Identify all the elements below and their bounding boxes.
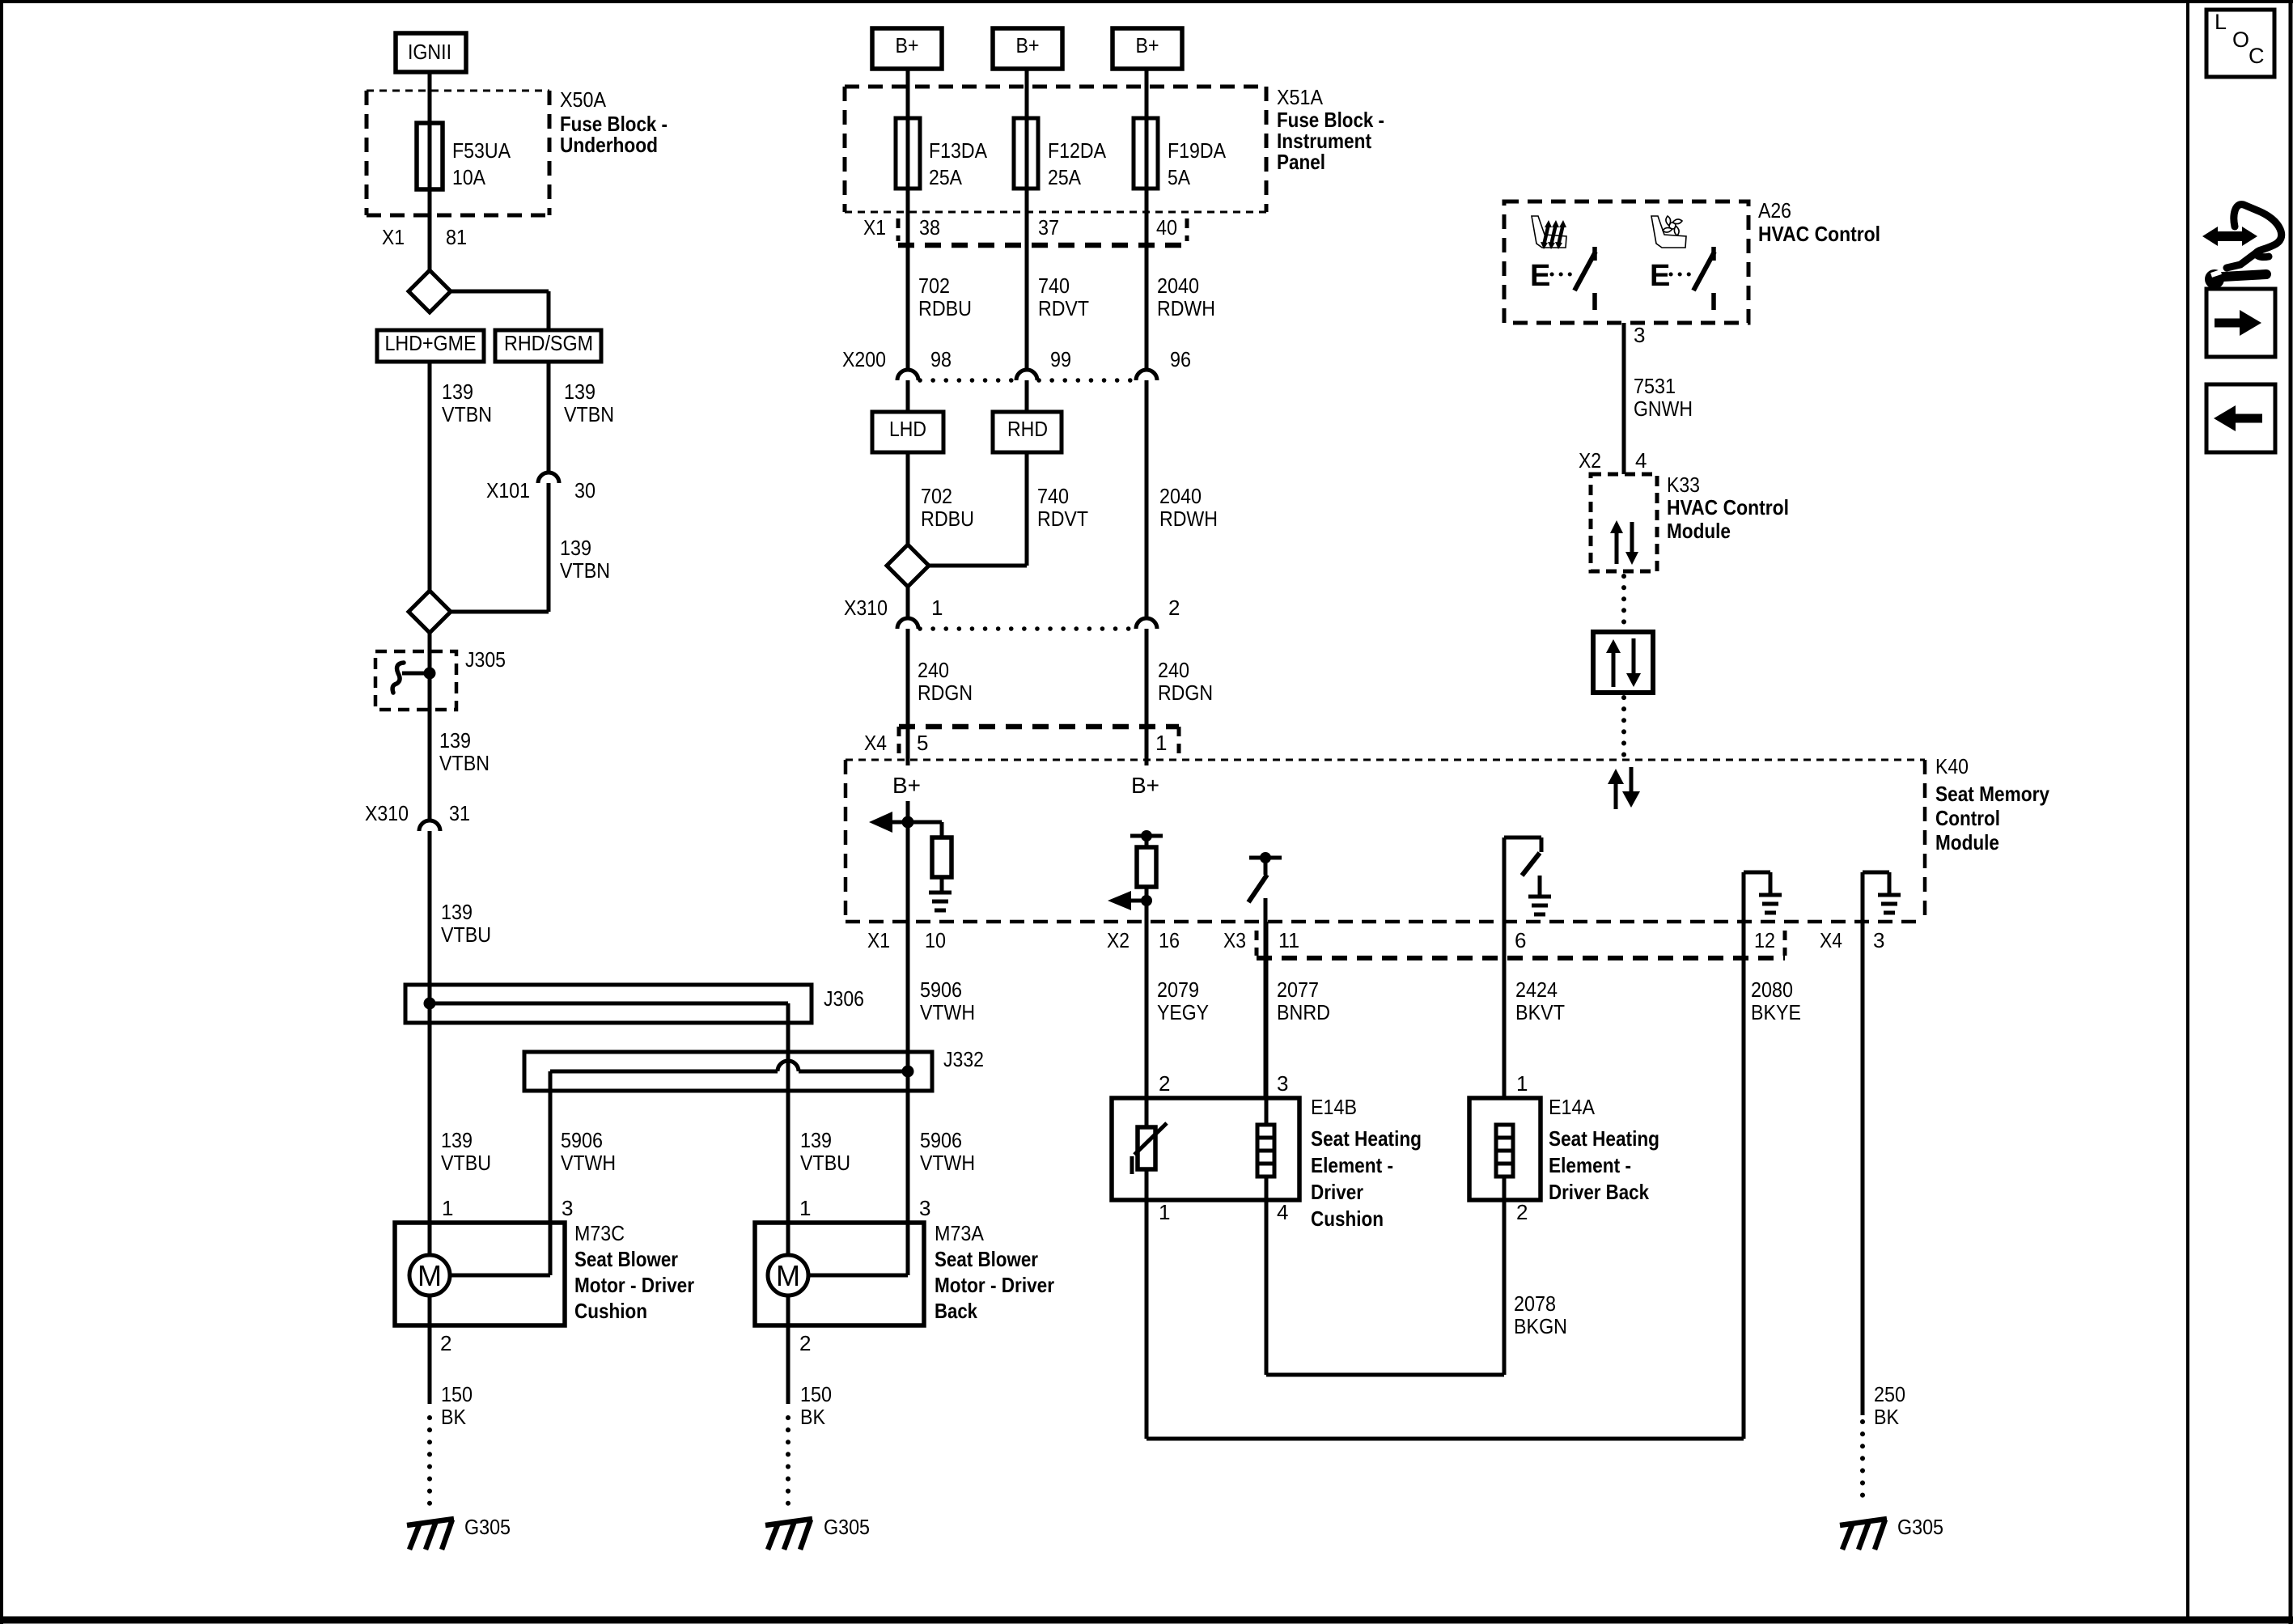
svg-text:M: M — [776, 1259, 800, 1292]
svg-text:6: 6 — [1515, 928, 1526, 952]
svg-text:11: 11 — [1278, 928, 1299, 952]
svg-text:J305: J305 — [465, 647, 506, 672]
svg-text:2: 2 — [1168, 596, 1180, 620]
svg-text:150: 150 — [441, 1382, 473, 1406]
svg-text:VTBU: VTBU — [441, 1151, 491, 1175]
svg-text:RDBU: RDBU — [918, 296, 972, 320]
svg-text:F12DA: F12DA — [1048, 138, 1107, 163]
svg-text:B+: B+ — [1136, 33, 1159, 57]
svg-text:Seat Memory: Seat Memory — [1935, 782, 2049, 806]
svg-text:L: L — [2215, 10, 2227, 34]
svg-text:1: 1 — [1516, 1071, 1528, 1096]
svg-text:702: 702 — [918, 273, 950, 298]
svg-text:139: 139 — [441, 900, 473, 924]
svg-text:RDWH: RDWH — [1159, 507, 1218, 531]
svg-text:240: 240 — [1158, 658, 1189, 682]
svg-text:2424: 2424 — [1515, 977, 1558, 1002]
svg-text:VTBN: VTBN — [439, 751, 490, 775]
svg-text:3: 3 — [1277, 1071, 1288, 1096]
svg-text:HVAC Control: HVAC Control — [1758, 222, 1880, 246]
svg-text:RDVT: RDVT — [1037, 507, 1088, 531]
svg-text:2: 2 — [440, 1331, 451, 1355]
svg-text:139: 139 — [800, 1128, 832, 1152]
svg-text:BKYE: BKYE — [1751, 1000, 1801, 1024]
svg-text:139: 139 — [439, 728, 471, 753]
svg-text:Seat Blower: Seat Blower — [574, 1247, 678, 1271]
svg-text:GNWH: GNWH — [1634, 396, 1693, 421]
svg-text:5A: 5A — [1168, 165, 1191, 189]
svg-text:E: E — [1530, 259, 1550, 293]
svg-text:99: 99 — [1050, 347, 1071, 371]
svg-text:RDWH: RDWH — [1157, 296, 1215, 320]
svg-text:7531: 7531 — [1634, 374, 1676, 398]
svg-text:Motor - Driver: Motor - Driver — [935, 1273, 1054, 1297]
svg-text:E: E — [1650, 259, 1670, 293]
svg-text:139: 139 — [441, 1128, 473, 1152]
svg-text:702: 702 — [921, 484, 952, 508]
svg-text:Element -: Element - — [1549, 1153, 1631, 1177]
svg-text:25A: 25A — [1048, 165, 1082, 189]
svg-text:2: 2 — [799, 1331, 811, 1355]
svg-text:1: 1 — [1159, 1200, 1170, 1224]
svg-text:X1: X1 — [867, 928, 890, 952]
svg-text:F19DA: F19DA — [1168, 138, 1227, 163]
svg-text:2040: 2040 — [1159, 484, 1202, 508]
svg-text:2: 2 — [1159, 1071, 1170, 1096]
svg-text:1: 1 — [1155, 731, 1167, 755]
svg-text:10: 10 — [925, 928, 946, 952]
svg-text:250: 250 — [1874, 1382, 1905, 1406]
svg-text:2077: 2077 — [1277, 977, 1319, 1002]
svg-text:RHD: RHD — [1007, 417, 1048, 441]
svg-text:2080: 2080 — [1751, 977, 1793, 1002]
svg-text:RDGN: RDGN — [918, 681, 973, 705]
svg-text:X1: X1 — [863, 215, 886, 240]
svg-text:Underhood: Underhood — [560, 133, 658, 157]
svg-text:Driver: Driver — [1311, 1180, 1363, 1204]
svg-text:O: O — [2232, 28, 2249, 52]
svg-text:1: 1 — [931, 596, 943, 620]
svg-text:X51A: X51A — [1277, 85, 1324, 109]
svg-text:Driver Back: Driver Back — [1549, 1180, 1649, 1204]
svg-text:10A: 10A — [452, 165, 486, 189]
svg-text:VTWH: VTWH — [920, 1000, 975, 1024]
svg-text:5906: 5906 — [920, 1128, 962, 1152]
svg-text:VTWH: VTWH — [561, 1151, 616, 1175]
svg-text:Seat Heating: Seat Heating — [1549, 1126, 1659, 1151]
svg-text:VTBN: VTBN — [442, 402, 492, 426]
svg-text:98: 98 — [930, 347, 952, 371]
svg-text:38: 38 — [919, 215, 940, 240]
svg-text:31: 31 — [449, 801, 470, 825]
svg-text:J306: J306 — [824, 986, 864, 1011]
svg-text:G305: G305 — [464, 1515, 511, 1539]
svg-text:Seat Blower: Seat Blower — [935, 1247, 1038, 1271]
svg-text:LHD: LHD — [889, 417, 926, 441]
svg-text:VTWH: VTWH — [920, 1151, 975, 1175]
svg-text:F13DA: F13DA — [929, 138, 988, 163]
svg-text:X101: X101 — [486, 478, 530, 502]
svg-text:LHD+GME: LHD+GME — [385, 331, 477, 355]
svg-text:A26: A26 — [1758, 198, 1791, 223]
svg-text:X4: X4 — [1820, 928, 1842, 952]
svg-text:E14B: E14B — [1311, 1095, 1357, 1119]
svg-text:M73A: M73A — [935, 1221, 985, 1245]
svg-text:IGNII: IGNII — [408, 40, 451, 64]
svg-text:G305: G305 — [1897, 1515, 1943, 1539]
svg-text:3: 3 — [1634, 323, 1645, 347]
svg-text:F53UA: F53UA — [452, 138, 511, 163]
svg-text:1: 1 — [442, 1196, 453, 1220]
svg-text:1: 1 — [799, 1196, 811, 1220]
svg-text:VTBN: VTBN — [564, 402, 614, 426]
svg-text:BK: BK — [441, 1405, 467, 1429]
svg-text:96: 96 — [1170, 347, 1191, 371]
svg-text:BK: BK — [1874, 1405, 1900, 1429]
svg-text:3: 3 — [919, 1196, 930, 1220]
svg-text:K40: K40 — [1935, 754, 1969, 778]
svg-text:139: 139 — [564, 379, 596, 404]
svg-text:BKVT: BKVT — [1515, 1000, 1565, 1024]
svg-text:RHD/SGM: RHD/SGM — [504, 331, 593, 355]
svg-text:240: 240 — [918, 658, 949, 682]
svg-text:M73C: M73C — [574, 1221, 625, 1245]
svg-text:X310: X310 — [844, 596, 888, 620]
svg-text:VTBN: VTBN — [560, 558, 610, 583]
svg-text:139: 139 — [560, 536, 591, 560]
svg-text:Motor - Driver: Motor - Driver — [574, 1273, 694, 1297]
svg-text:G305: G305 — [824, 1515, 870, 1539]
svg-text:Module: Module — [1935, 830, 1999, 854]
svg-text:BK: BK — [800, 1405, 826, 1429]
svg-text:Module: Module — [1667, 519, 1731, 543]
svg-text:Cushion: Cushion — [1311, 1206, 1384, 1231]
svg-text:X50A: X50A — [560, 87, 607, 112]
svg-text:2079: 2079 — [1157, 977, 1199, 1002]
svg-text:16: 16 — [1159, 928, 1180, 952]
svg-text:81: 81 — [446, 225, 467, 249]
svg-text:VTBU: VTBU — [800, 1151, 850, 1175]
svg-text:E14A: E14A — [1549, 1095, 1596, 1119]
svg-text:HVAC Control: HVAC Control — [1667, 495, 1789, 519]
svg-text:X310: X310 — [365, 801, 409, 825]
svg-text:12: 12 — [1754, 928, 1775, 952]
svg-text:2040: 2040 — [1157, 273, 1199, 298]
svg-text:X2: X2 — [1579, 448, 1601, 473]
svg-text:J332: J332 — [943, 1047, 984, 1071]
svg-text:740: 740 — [1037, 484, 1069, 508]
svg-text:BKGN: BKGN — [1514, 1314, 1567, 1338]
svg-text:Back: Back — [935, 1299, 977, 1323]
svg-text:B+: B+ — [1016, 33, 1040, 57]
svg-text:X1: X1 — [382, 225, 405, 249]
svg-text:YEGY: YEGY — [1157, 1000, 1209, 1024]
svg-text:RDVT: RDVT — [1038, 296, 1089, 320]
svg-text:740: 740 — [1038, 273, 1070, 298]
svg-text:X200: X200 — [842, 347, 886, 371]
svg-text:Panel: Panel — [1277, 150, 1325, 174]
svg-text:2078: 2078 — [1514, 1291, 1556, 1316]
svg-text:VTBU: VTBU — [441, 922, 491, 947]
svg-text:Control: Control — [1935, 806, 2000, 830]
svg-text:X3: X3 — [1223, 928, 1246, 952]
svg-text:B+: B+ — [892, 773, 921, 798]
svg-text:B+: B+ — [1131, 773, 1159, 798]
svg-text:K33: K33 — [1667, 473, 1700, 497]
svg-text:B+: B+ — [896, 33, 919, 57]
svg-text:25A: 25A — [929, 165, 963, 189]
svg-text:40: 40 — [1156, 215, 1177, 240]
svg-text:3: 3 — [562, 1196, 573, 1220]
svg-text:X2: X2 — [1107, 928, 1130, 952]
svg-text:150: 150 — [800, 1382, 832, 1406]
svg-text:Cushion: Cushion — [574, 1299, 647, 1323]
svg-text:139: 139 — [442, 379, 473, 404]
svg-text:30: 30 — [574, 478, 596, 502]
svg-text:M: M — [417, 1259, 442, 1292]
svg-text:Element -: Element - — [1311, 1153, 1393, 1177]
svg-text:X4: X4 — [864, 731, 887, 755]
svg-text:2: 2 — [1516, 1200, 1528, 1224]
svg-text:5: 5 — [917, 731, 928, 755]
svg-text:Seat Heating: Seat Heating — [1311, 1126, 1422, 1151]
svg-text:5906: 5906 — [920, 977, 962, 1002]
svg-text:3: 3 — [1873, 928, 1884, 952]
svg-text:37: 37 — [1038, 215, 1059, 240]
svg-text:C: C — [2248, 44, 2265, 68]
svg-text:RDBU: RDBU — [921, 507, 974, 531]
svg-text:4: 4 — [1635, 448, 1647, 473]
svg-text:4: 4 — [1277, 1200, 1288, 1224]
svg-text:5906: 5906 — [561, 1128, 603, 1152]
svg-text:BNRD: BNRD — [1277, 1000, 1330, 1024]
svg-text:RDGN: RDGN — [1158, 681, 1213, 705]
